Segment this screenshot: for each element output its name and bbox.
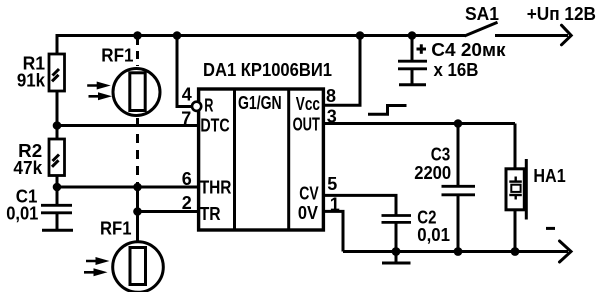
junction dot rail pin4 [173, 31, 182, 40]
junction dot rail Vcc [356, 31, 365, 40]
svg-text:6: 6 [182, 169, 192, 189]
resistor R2 [49, 139, 65, 176]
wire R pin4 [177, 36, 192, 107]
svg-text:+Uп 12В: +Uп 12В [527, 4, 596, 24]
svg-text:HA1: HA1 [533, 166, 565, 186]
ground under C4 [399, 83, 426, 86]
wire DTC pin7 [57, 124, 199, 127]
svg-text:C4 20мк: C4 20мк [431, 40, 506, 60]
capacitor C1 [41, 204, 72, 207]
wire THR node to TR node to RF1 [136, 187, 139, 243]
sounder HA1 [514, 124, 517, 169]
wire CV pin5 [323, 195, 396, 214]
capacitor C2 [382, 214, 412, 217]
resistor R1 [49, 54, 65, 91]
svg-text:CV: CV [299, 184, 318, 204]
svg-text:TR: TR [200, 204, 221, 224]
dashed link upper RF1 bottom [136, 118, 139, 184]
junction dot rail C2 [392, 247, 401, 256]
photoresistor RF1 lower [113, 242, 164, 292]
junction dot rail C4 [408, 31, 417, 40]
photoresistor RF1 upper arrows [87, 82, 111, 90]
wire supply arrow line [495, 34, 568, 37]
capacitor C4 [411, 37, 414, 60]
svg-text:DA1 КР1006ВИ1: DA1 КР1006ВИ1 [203, 60, 332, 80]
photoresistor RF1 lower arrows [86, 257, 110, 265]
svg-text:G1/GN: G1/GN [238, 93, 282, 113]
svg-text:8: 8 [326, 86, 336, 106]
svg-text:7: 7 [181, 108, 191, 128]
svg-text:4: 4 [182, 84, 192, 104]
ground under C2 [395, 252, 398, 262]
svg-text:R: R [204, 96, 213, 116]
svg-text:1: 1 [330, 194, 340, 214]
junction dot rail C3 [454, 247, 463, 256]
IC DA1 body [199, 89, 324, 230]
dashed link upper RF1 top [136, 37, 139, 66]
junction dot rail RF1 [133, 31, 142, 40]
capacitor C3 [457, 124, 460, 186]
minus sign [546, 227, 555, 230]
svg-text:2: 2 [182, 193, 192, 213]
wire bottom arrowhead [560, 241, 572, 262]
svg-text:DTC: DTC [200, 116, 229, 136]
svg-text:2200: 2200 [414, 163, 451, 183]
switch SA1 [465, 22, 498, 36]
wire R1 to node A [56, 91, 59, 139]
wire supply arrowhead [562, 25, 572, 45]
junction dot TR [133, 207, 142, 216]
svg-text:C3: C3 [431, 144, 451, 164]
svg-text:5: 5 [327, 174, 337, 194]
wire TR pin2 [138, 210, 199, 213]
wire bottom rail [343, 250, 568, 253]
wire top supply rail [57, 36, 465, 54]
svg-text:RF1: RF1 [100, 218, 132, 238]
svg-text:0,01: 0,01 [6, 204, 38, 224]
svg-text:0,01: 0,01 [417, 225, 450, 245]
junction dot rail HA1 [511, 247, 520, 256]
svg-text:91k: 91k [17, 70, 46, 90]
wire R2 to node B [56, 176, 59, 205]
junction dot THR [133, 183, 142, 192]
step waveform symbol [368, 106, 407, 115]
junction dot node A [53, 121, 62, 130]
svg-text:OUT: OUT [293, 115, 320, 135]
plus sign C4 [417, 48, 427, 51]
svg-text:SA1: SA1 [465, 4, 499, 24]
photoresistor RF1 upper [113, 69, 160, 116]
IC DA1 inversion bubble pin R [192, 102, 201, 111]
junction dot node B [53, 183, 62, 192]
wire OUT pin3 [323, 122, 515, 125]
wire Vcc pin8 [323, 36, 360, 106]
svg-text:RF1: RF1 [101, 45, 133, 65]
svg-text:0V: 0V [298, 203, 318, 223]
junction dot OUT C3 [454, 119, 463, 128]
wire THR pin6 [57, 186, 199, 189]
wire 0V pin1 [323, 211, 343, 251]
svg-text:3: 3 [327, 107, 337, 127]
svg-text:THR: THR [200, 178, 232, 198]
svg-text:x 16В: x 16В [434, 60, 479, 80]
ground under C1 [42, 229, 73, 232]
svg-text:47k: 47k [13, 158, 43, 178]
svg-text:Vcc: Vcc [296, 94, 320, 114]
